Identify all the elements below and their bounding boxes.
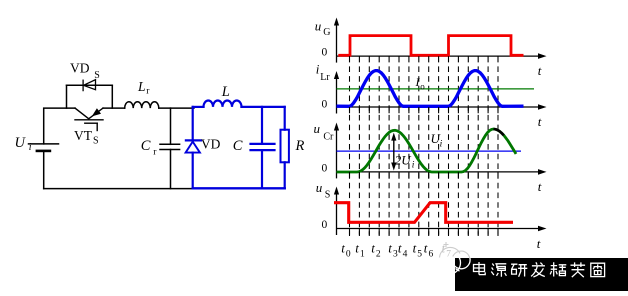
wire battery top to transistor <box>44 108 75 144</box>
svg-text:u: u <box>315 18 322 33</box>
svg-text:i: i <box>316 62 320 77</box>
svg-text:2U: 2U <box>395 152 413 167</box>
svg-text:C: C <box>233 138 243 154</box>
wire: antiparallel loop top <box>67 84 113 86</box>
svg-text:t: t <box>537 236 541 251</box>
svg-text:0: 0 <box>322 47 328 59</box>
svg-text:i: i <box>440 139 443 149</box>
svg-text:S: S <box>93 136 99 147</box>
waveform uG (red gate signal) <box>338 36 523 56</box>
diode VD branch (blue) <box>186 107 201 188</box>
char 精 <box>550 262 566 276</box>
blue top wire + inductor L <box>193 101 285 107</box>
axis tick marks below each axis <box>350 56 499 235</box>
svg-text:t: t <box>341 241 345 256</box>
black cap segment on second uCr peak <box>494 129 504 135</box>
svg-text:t: t <box>424 241 428 256</box>
waveform uCr (green resonant capacitor voltage) <box>337 129 517 172</box>
Io level line (green) <box>337 88 535 90</box>
char 源 <box>491 264 506 277</box>
resistor R branch (blue) <box>281 107 289 188</box>
capacitor C branch (blue) <box>251 107 275 188</box>
char 圈 <box>591 263 605 276</box>
waveform iLr (blue resonant current) <box>337 71 524 107</box>
svg-text:0: 0 <box>322 219 328 231</box>
svg-text:t: t <box>442 241 446 256</box>
faint t7 ghost <box>442 241 452 260</box>
bottom rail (black) <box>44 188 193 190</box>
blue bottom rail <box>193 187 285 189</box>
char 电 <box>474 262 486 275</box>
svg-text:t: t <box>538 63 542 78</box>
wire Lr to node / to VD branch <box>159 107 194 109</box>
svg-text:4: 4 <box>403 249 408 259</box>
banner text 电源研发精英圈 (stroke glyphs) <box>474 262 605 277</box>
wire: antiparallel loop right vertical <box>111 85 113 108</box>
svg-text:u: u <box>314 121 321 136</box>
svg-text:5: 5 <box>417 249 422 259</box>
plot 1: uG axes <box>337 24 539 63</box>
svg-text:0: 0 <box>322 163 328 175</box>
diode VDS (cathode bar left, triangle opening right) <box>83 80 95 91</box>
inductor Lr (4 loops) <box>125 102 159 108</box>
svg-text:t: t <box>538 114 542 129</box>
svg-text:7: 7 <box>446 249 451 259</box>
svg-text:G: G <box>323 27 330 38</box>
voltage source Ui battery symbol <box>29 144 59 151</box>
svg-text:S: S <box>325 189 331 200</box>
svg-text:t: t <box>538 179 542 194</box>
plot 2: iLr axes <box>337 77 539 114</box>
svg-text:t: t <box>388 241 392 256</box>
svg-text:o: o <box>420 82 425 92</box>
svg-text:0: 0 <box>322 98 328 110</box>
circuit labels <box>15 61 305 158</box>
wire: antiparallel loop left vertical <box>66 85 68 108</box>
char 英 <box>571 262 586 277</box>
svg-text:Cr: Cr <box>323 132 334 143</box>
white logo bubbles (clipped to banner) <box>438 251 470 274</box>
wire transistor to Lr <box>103 107 125 109</box>
svg-text:VD: VD <box>201 136 221 151</box>
dashed time grid <box>350 66 499 236</box>
plot 4: uS axes <box>337 193 539 236</box>
svg-text:0: 0 <box>346 249 351 259</box>
svg-text:t: t <box>413 241 417 256</box>
svg-text:6: 6 <box>429 249 434 259</box>
svg-text:Lr: Lr <box>320 72 330 83</box>
time labels t0..t6 <box>341 241 451 260</box>
svg-text:VT: VT <box>74 128 93 143</box>
svg-text:i: i <box>29 142 32 153</box>
svg-text:t: t <box>371 241 375 256</box>
svg-text:2: 2 <box>376 249 381 259</box>
svg-text:t: t <box>355 241 359 256</box>
svg-text:R: R <box>295 138 305 154</box>
transistor VTS (IGBT) <box>75 108 103 130</box>
Ui level line (blue) <box>337 150 522 152</box>
svg-text:L: L <box>137 79 146 94</box>
svg-text:U: U <box>15 135 27 151</box>
waveform uS (red switch voltage) <box>334 203 513 223</box>
faint grey watermark logo fragments above banner <box>440 242 470 259</box>
transistor VTS emitter arrow <box>92 108 101 116</box>
svg-text:u: u <box>316 180 323 195</box>
svg-text:i: i <box>412 160 415 170</box>
plot labels <box>314 18 542 251</box>
svg-text:1: 1 <box>360 249 365 259</box>
wire battery bottom to rail <box>43 151 45 189</box>
svg-text:t: t <box>398 241 402 256</box>
svg-text:L: L <box>221 84 230 100</box>
char 发 <box>531 262 545 277</box>
svg-text:C: C <box>141 138 151 154</box>
black banner box <box>455 258 628 291</box>
plot 3: uCr axes <box>337 129 539 179</box>
char 研 <box>511 264 527 277</box>
2Ui double arrow <box>393 137 395 167</box>
svg-text:S: S <box>94 70 100 81</box>
capacitor Cr branch <box>160 108 180 189</box>
svg-text:VD: VD <box>70 61 90 76</box>
